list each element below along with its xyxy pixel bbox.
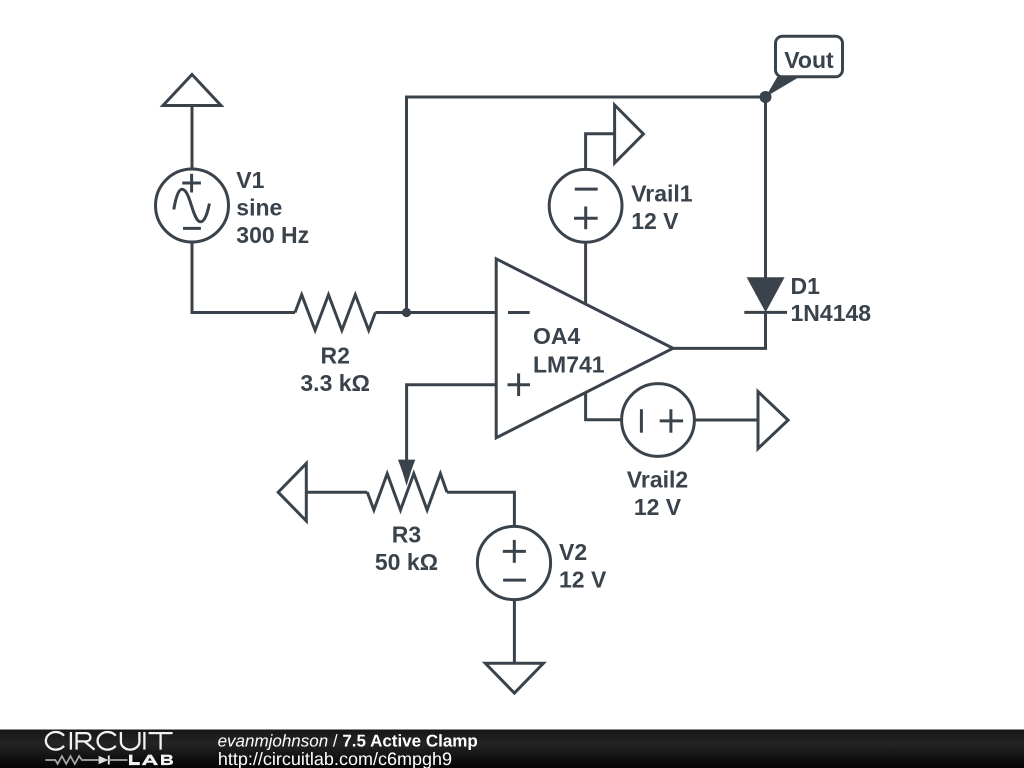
svg-text:50 kΩ: 50 kΩ <box>375 549 438 575</box>
svg-text:V2: V2 <box>559 539 587 565</box>
power flag arrow at V1 top <box>163 75 221 106</box>
svg-text:sine: sine <box>236 195 282 221</box>
svg-text:12 V: 12 V <box>634 494 682 520</box>
svg-text:D1: D1 <box>791 273 821 299</box>
svg-text:1N4148: 1N4148 <box>791 300 872 326</box>
label Vrail2 value <box>627 467 688 520</box>
wire R2 to op-amp inverting input <box>375 311 496 314</box>
svg-text:12 V: 12 V <box>559 567 607 593</box>
resistor R2 <box>295 295 375 331</box>
op-amp plus symbol <box>508 373 531 396</box>
svg-text:Vout: Vout <box>784 47 834 73</box>
wire op-amp V- pin to Vrail2 <box>586 393 622 420</box>
voltage source Vrail2 <box>622 384 695 457</box>
node Vout junction dot <box>760 91 772 103</box>
ground <box>485 663 543 693</box>
wire V2 bottom to ground <box>513 600 516 664</box>
svg-text:http://circuitlab.com/c6mpgh9: http://circuitlab.com/c6mpgh9 <box>218 749 452 768</box>
footer bar <box>0 730 1024 768</box>
wire V1 top to arrow <box>191 106 194 170</box>
wire arrow to R3 <box>306 491 367 494</box>
label R2 value <box>300 342 370 396</box>
R3 wiper arrowhead <box>398 460 415 486</box>
diode D1 <box>744 277 787 312</box>
svg-text:Vrail2: Vrail2 <box>627 467 688 493</box>
flag Vout <box>766 36 843 97</box>
label D1 value <box>791 273 872 326</box>
wire V1 bottom to R2 <box>192 242 295 313</box>
logo CIRCUIT wordmark <box>46 732 173 750</box>
voltage source Vrail1 <box>549 169 622 242</box>
svg-text:OA4: OA4 <box>533 323 581 349</box>
op-amp minus symbol <box>508 311 530 314</box>
label R3 value <box>375 522 438 576</box>
svg-text:V1: V1 <box>236 167 264 193</box>
label V2 value <box>559 539 607 593</box>
wire Vrail1 bottom to op-amp V+ pin <box>584 242 587 304</box>
voltage source V2 <box>477 526 550 599</box>
potentiometer R3 <box>367 474 447 510</box>
logo LAB letters <box>129 755 173 766</box>
svg-text:R2: R2 <box>320 342 349 368</box>
wire feedback from node A up and right to Vout <box>407 97 766 313</box>
svg-text:evanmjohnson / 7.5 Active Clam: evanmjohnson / 7.5 Active Clamp <box>218 732 478 751</box>
logo resistor-diode glyph <box>45 756 127 765</box>
label OA4 LM741 <box>533 323 605 377</box>
wire op-amp noninverting input to R3 wiper <box>407 385 497 462</box>
svg-text:3.3 kΩ: 3.3 kΩ <box>300 370 370 396</box>
svg-text:12 V: 12 V <box>631 208 679 234</box>
svg-text:R3: R3 <box>392 522 421 548</box>
voltage source V1 <box>156 169 229 242</box>
power flag arrow at Vrail1 <box>615 105 644 163</box>
svg-text:LM741: LM741 <box>533 352 605 378</box>
op-amp U1 OA4 triangle <box>496 259 673 438</box>
node A junction dot <box>402 308 411 317</box>
svg-text:300 Hz: 300 Hz <box>236 222 309 248</box>
power flag arrow left of R3 <box>278 463 306 521</box>
wire Vrail1 top to power arrow <box>586 134 615 170</box>
power flag arrow at Vrail2 <box>758 392 788 449</box>
label Vrail1 value <box>631 181 693 234</box>
wire D1 cathode to op-amp output <box>673 312 766 348</box>
wire Vout node down to D1 anode <box>764 97 767 278</box>
svg-text:Vrail1: Vrail1 <box>631 181 693 207</box>
wire Vrail2 to power arrow <box>694 419 758 422</box>
wire R3 right to V2 top <box>447 492 514 527</box>
label V1 value <box>236 167 309 248</box>
